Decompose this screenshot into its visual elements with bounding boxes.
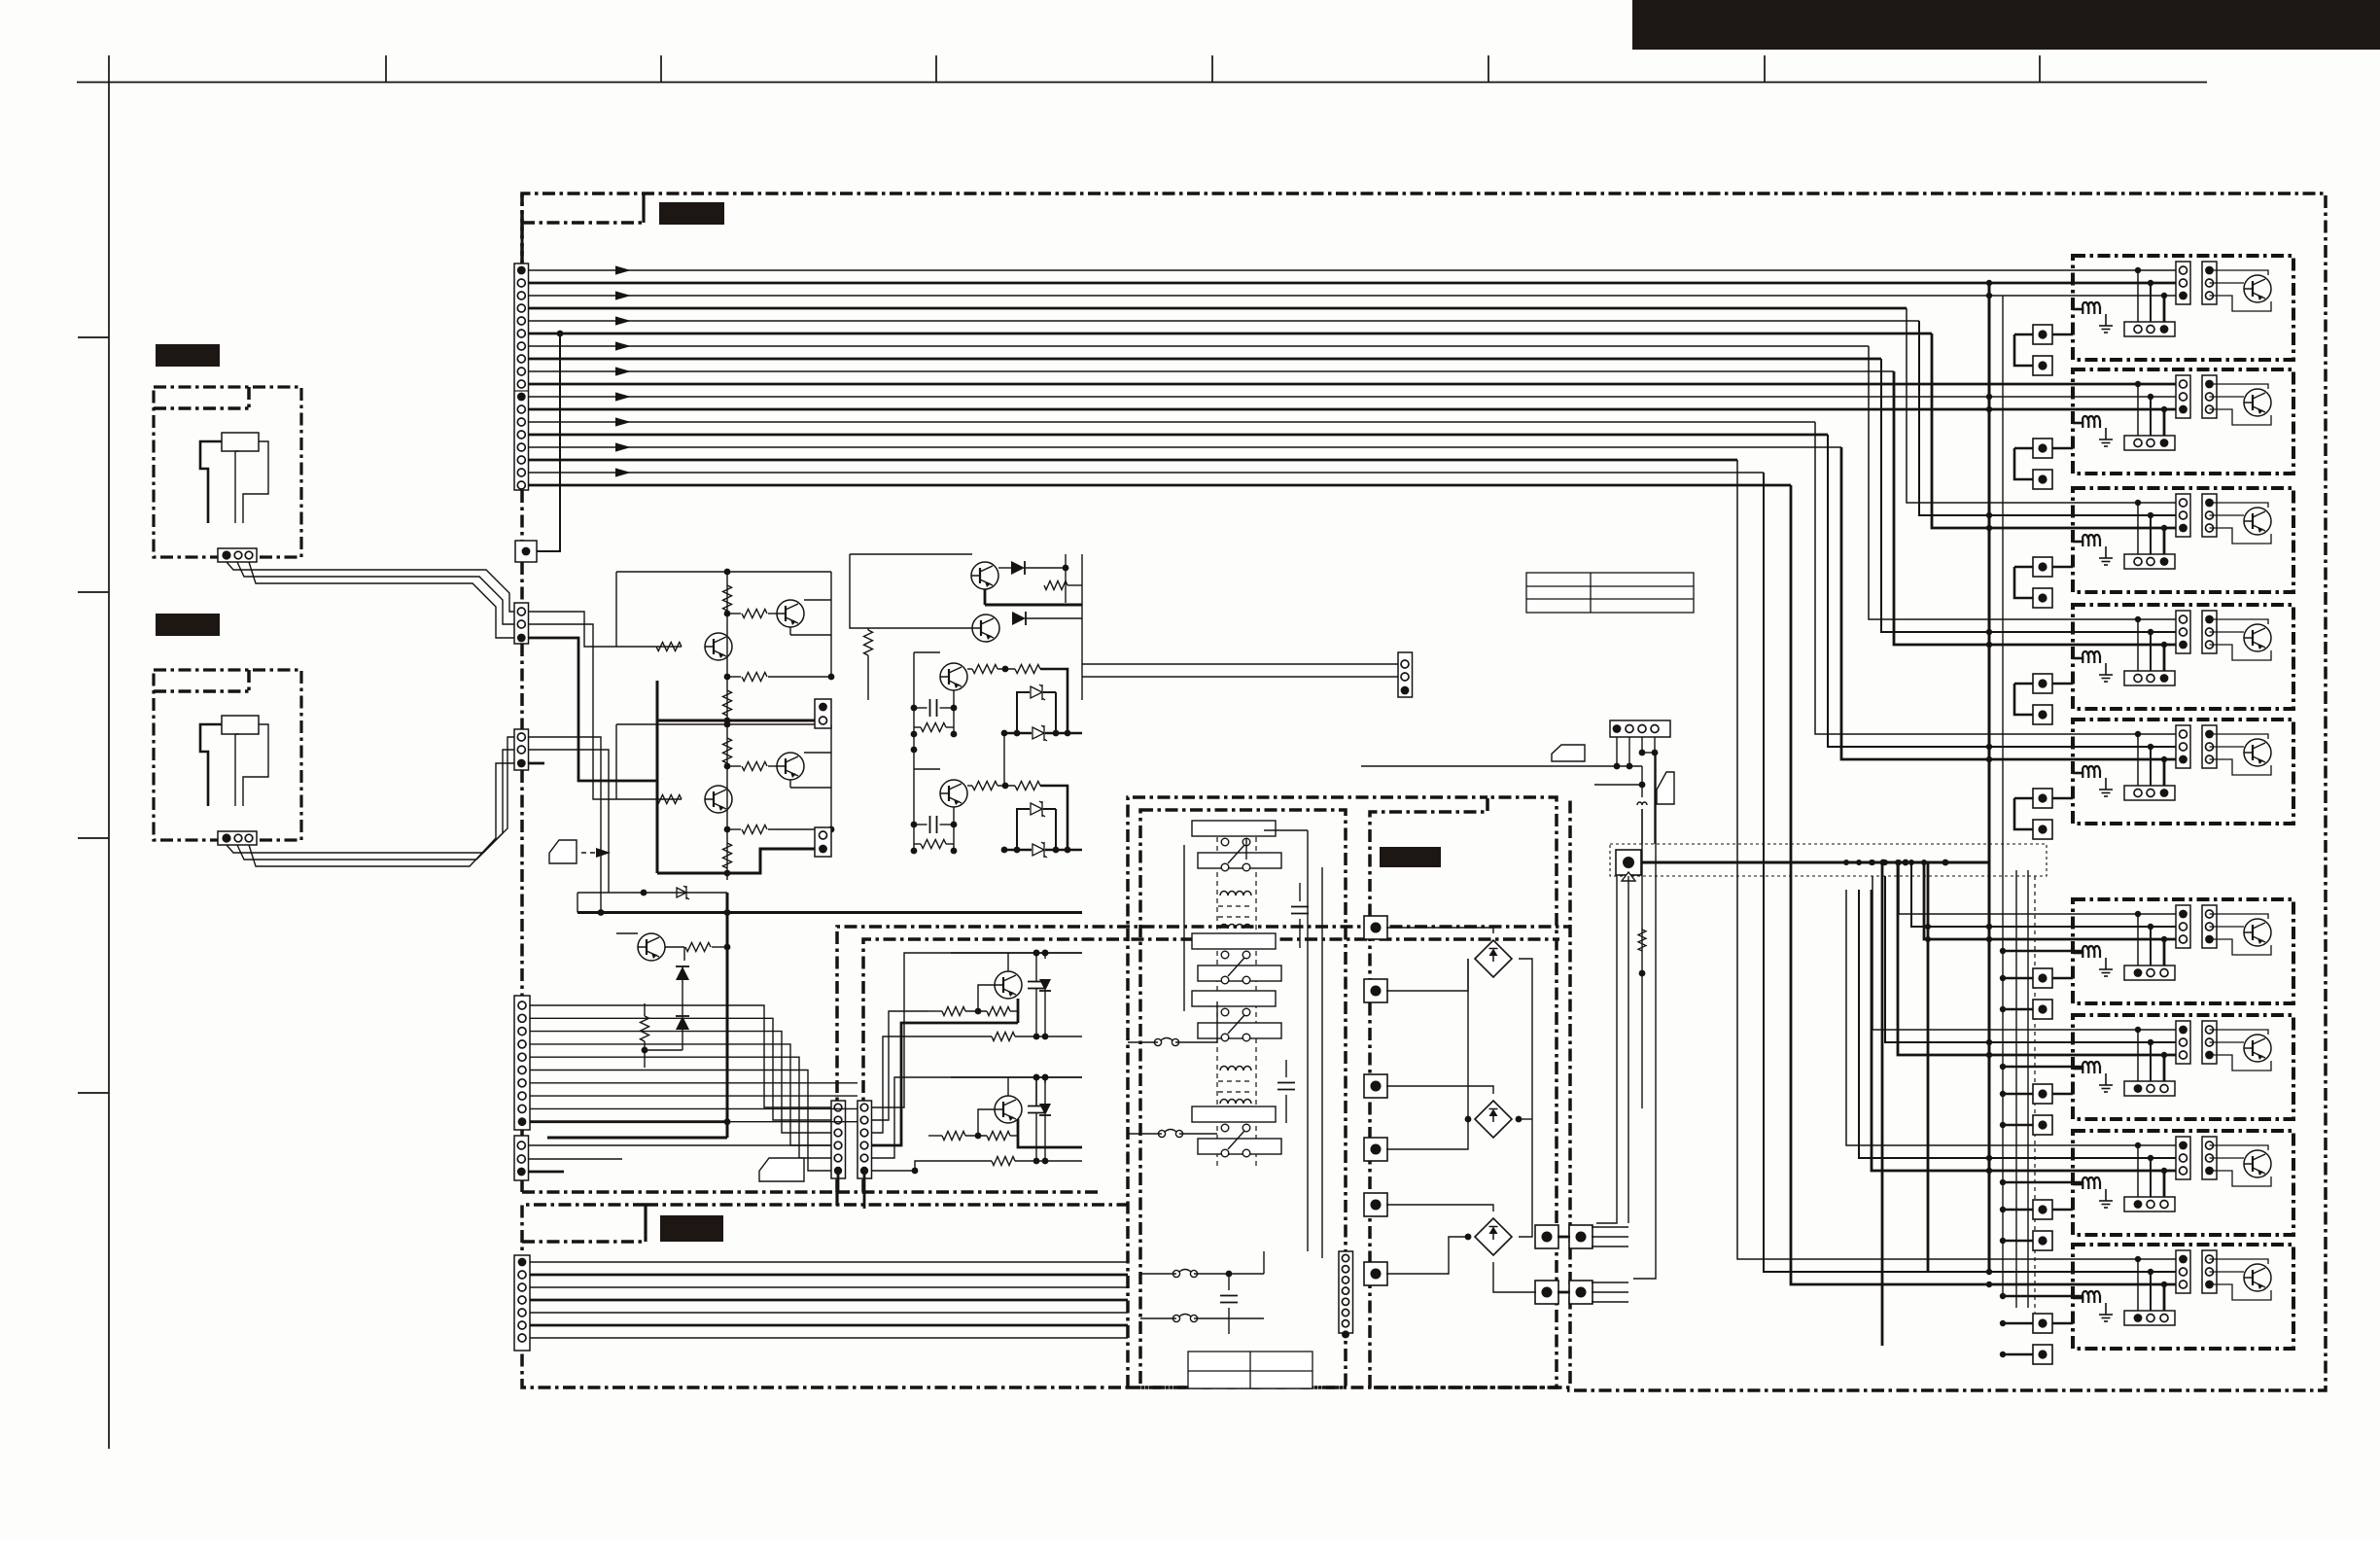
- block 1 input wires: [2135, 267, 2141, 273]
- resistor: [921, 840, 946, 849]
- wire to block8: [1846, 890, 2183, 1145]
- pad 2pin A: [815, 699, 831, 728]
- transistor: [940, 663, 967, 690]
- relay R1: [1192, 821, 1276, 836]
- block 2 power transistor: [2244, 389, 2271, 416]
- resistor: [723, 843, 732, 868]
- block 9 power transistor: [2244, 1264, 2271, 1291]
- feeder to TR1: [1596, 876, 1617, 1223]
- main board outline (dash-dot): [520, 223, 524, 263]
- wire bus5 to block3: [1919, 321, 2183, 515]
- wire to block6: [1899, 862, 2183, 914]
- resistor: [742, 673, 767, 682]
- fuse F1: [1154, 1038, 1178, 1046]
- wire bus6 to block3: [1932, 334, 2183, 528]
- transformer box: [1140, 810, 1346, 1387]
- connector 3pin lower: [514, 1136, 529, 1180]
- ruler tick: [1764, 55, 1766, 83]
- output block 1 outline: [2073, 256, 2293, 360]
- block 9 input wires: [2135, 1256, 2141, 1262]
- bus wire 13: [529, 421, 1816, 423]
- block 6 bottom connector: [2124, 966, 2175, 980]
- ruler tick: [935, 55, 937, 83]
- resistor: [742, 610, 767, 618]
- diode: [1012, 612, 1026, 625]
- connector 10pin: [514, 996, 530, 1130]
- transistor: [777, 753, 804, 780]
- main box bottom-left edge: [522, 1190, 837, 1194]
- harness wire: [530, 1082, 857, 1084]
- jack component: [222, 716, 259, 734]
- diode: [1011, 561, 1025, 575]
- bus wire 18: [529, 484, 1792, 487]
- block 3 connector left 3pin: [2176, 494, 2190, 537]
- main box left edge seg: [520, 1130, 524, 1138]
- wire down from protector: [1627, 876, 1629, 1223]
- rectifier box: [1370, 797, 1557, 1387]
- left ruler tick: [78, 1092, 109, 1094]
- wire bus15 to block5: [1841, 447, 2183, 759]
- block 6 emitter coil+ground: [2082, 946, 2100, 958]
- block 1 power transistor: [2244, 275, 2271, 302]
- resistor: [1015, 782, 1040, 790]
- output block 9 outline: [2073, 1245, 2293, 1349]
- top ruler line: [77, 82, 2207, 84]
- junction bus6: [557, 331, 564, 337]
- thick emitter wire B: [1018, 1119, 1082, 1147]
- bottom box outline: [522, 1205, 1128, 1387]
- resistor: [864, 630, 873, 655]
- bus wire 12: [529, 408, 2184, 411]
- transistor: [705, 786, 732, 813]
- ladder right: [953, 807, 955, 851]
- bus wire 6: [529, 333, 1933, 335]
- main box left edge seg: [520, 1179, 524, 1192]
- bottom resistor wire: [928, 1036, 992, 1037]
- bridge D1: [1475, 940, 1512, 977]
- bus wire 3: [529, 295, 2184, 297]
- bus wire 7: [529, 345, 1870, 347]
- block 6 power transistor: [2244, 919, 2271, 946]
- block 9 bottom connector: [2124, 1311, 2175, 1325]
- bottom bus wire 3: [530, 1286, 1128, 1288]
- harness wire: [530, 1057, 831, 1158]
- ladder right: [953, 690, 955, 734]
- ruler tick: [385, 55, 387, 83]
- connector 3pin mid-right: [1398, 652, 1413, 697]
- harness wire: [530, 1121, 857, 1123]
- output block 3 outline: [2073, 488, 2293, 592]
- ruler tick: [2039, 55, 2041, 83]
- bottom bus wire 5: [530, 1312, 1128, 1314]
- thick wire from 10pin: [530, 1120, 727, 1123]
- resistor: [972, 782, 997, 790]
- main box left edge seg: [520, 562, 524, 603]
- bottom resistor wire: [928, 1160, 992, 1162]
- resistor: [685, 943, 711, 952]
- thick wire 939: [577, 911, 1082, 914]
- left ruler tick: [78, 591, 109, 593]
- main box label notch lower line: [522, 221, 644, 225]
- transistor: [705, 633, 732, 660]
- wire to block6: [1911, 862, 2183, 927]
- left ruler tick: [78, 837, 109, 839]
- block 2 left pads: [2033, 439, 2052, 458]
- resistor: [1015, 665, 1040, 674]
- protector pad: [1616, 850, 1641, 875]
- block 2 connector right 3pin: [2202, 375, 2217, 418]
- block 7 connector left 3pin: [2176, 1021, 2190, 1064]
- bottom box notch lower line: [522, 1240, 646, 1244]
- left ruler line: [108, 55, 110, 1449]
- flag note 2: [1552, 745, 1585, 761]
- rail x1983 thick: [1927, 862, 1930, 1272]
- block 5 emitter coil+ground: [2082, 766, 2100, 778]
- power amp outline P2: [863, 939, 1559, 1192]
- label rectifier: [1380, 847, 1441, 867]
- block 6 connector right 3pin: [2202, 905, 2217, 948]
- thick wire: [1040, 786, 1067, 850]
- thick wire from CN pin3: [529, 638, 658, 781]
- block 4 bottom connector: [2124, 671, 2175, 685]
- ruler tick: [660, 55, 662, 83]
- diode: [1039, 1104, 1051, 1115]
- power amp outline P1: [837, 927, 1570, 1192]
- zener: [1032, 842, 1047, 858]
- block 8 emitter coil+ground: [2082, 1177, 2100, 1189]
- transformer T2: [1220, 1067, 1251, 1071]
- bus wire 17: [529, 472, 1765, 474]
- rail x2060: [2002, 296, 2004, 1296]
- capacitor: [1028, 1106, 1045, 1113]
- block 5 connector left 3pin: [2176, 725, 2190, 768]
- driver stage upper: [971, 562, 998, 589]
- resistor: [656, 643, 682, 651]
- resistor: [723, 690, 732, 716]
- zener: [1032, 725, 1047, 741]
- ladder left: [913, 652, 915, 734]
- wire bus17 to block9: [1764, 473, 2183, 1272]
- output block 4 outline: [2073, 605, 2293, 709]
- wire bus9 to block4: [1894, 371, 2183, 645]
- block 2 emitter coil+ground: [2082, 416, 2100, 428]
- outer power box: [1128, 797, 1487, 1387]
- wire bus4 to block3: [1907, 308, 2183, 503]
- speaker A cable: [227, 562, 515, 612]
- joint: [835, 1192, 838, 1206]
- block 9 emitter coil+ground: [2082, 1291, 2100, 1303]
- block 4 emitter coil+ground: [2082, 651, 2100, 663]
- zener pair: [1031, 685, 1045, 700]
- bottom bus wire 1: [530, 1261, 1128, 1263]
- wire row 918: [577, 892, 727, 894]
- harness wire: [530, 1071, 831, 1172]
- relay R2: [1192, 933, 1276, 949]
- TR pads: [1569, 1225, 1592, 1248]
- board label (top): [659, 202, 724, 225]
- rectifier output pads: [1535, 1225, 1558, 1248]
- block 3 left pads: [2033, 557, 2052, 577]
- verticals below 6pin: [837, 1170, 840, 1192]
- block 5 input wires: [2135, 731, 2141, 737]
- wires from 4pin: [1616, 737, 1618, 766]
- wire to block7: [1872, 876, 2183, 1030]
- thick bottom rail: [547, 1137, 727, 1140]
- capacitor: [1028, 982, 1045, 989]
- relay frame dashed columns: [1216, 828, 1218, 1167]
- block 7 power transistor: [2244, 1035, 2271, 1062]
- relay R3: [1192, 991, 1276, 1006]
- block 7 left pads: [2033, 1084, 2052, 1104]
- speaker box B: [154, 670, 301, 840]
- block 6 input wires: [2135, 911, 2141, 917]
- table bottom: [1188, 1352, 1312, 1388]
- bus wire 9: [529, 370, 1895, 372]
- output block 2 outline: [2073, 369, 2293, 474]
- wire to 3pin: [1082, 663, 1398, 665]
- capacitor: [930, 699, 937, 717]
- ruler tick: [1211, 55, 1213, 83]
- block 4 left pads: [2033, 674, 2052, 693]
- rectifier pads: [1364, 916, 1387, 939]
- block 8 input wires: [2135, 1142, 2141, 1148]
- wire to driver B top: [872, 1077, 1083, 1158]
- dashed rail x2093: [2034, 876, 2036, 1313]
- small table: [1526, 573, 1694, 613]
- bus wire 4: [529, 307, 1907, 310]
- bus wire 1: [529, 269, 2184, 271]
- speaker terminal connector: [218, 831, 257, 845]
- connector CN main 18pin: [514, 263, 529, 490]
- rectifier wiring: [1386, 928, 1493, 933]
- block 8 bottom connector: [2124, 1197, 2175, 1211]
- block 5 power transistor: [2244, 739, 2271, 766]
- pad 2pin B: [815, 827, 831, 857]
- wire bus18 to block9: [1791, 485, 2183, 1284]
- bottom bus wire 6: [530, 1324, 1128, 1327]
- block 4 power transistor: [2244, 624, 2271, 651]
- left ruler tick: [78, 336, 109, 338]
- bridge D3: [1475, 1218, 1512, 1255]
- block 8 power transistor: [2244, 1150, 2271, 1177]
- block 9 connector right 3pin: [2202, 1250, 2217, 1293]
- bottom bus wire 2: [530, 1274, 1128, 1277]
- connector 3pin mid: [514, 729, 529, 770]
- thick center rail lower: [726, 893, 729, 1138]
- block 2 connector left 3pin: [2176, 375, 2190, 418]
- wire bus14 to block5: [1828, 435, 2183, 747]
- wire to block8: [1859, 890, 2183, 1158]
- small 1pin box: [515, 541, 537, 562]
- label speaker B: [156, 614, 220, 636]
- block 8 connector left 3pin: [2176, 1137, 2190, 1179]
- block 1 emitter coil+ground: [2082, 302, 2100, 314]
- block 3 power transistor: [2244, 508, 2271, 535]
- thick emitter wire A: [872, 1023, 1019, 1145]
- bus wire 11: [529, 396, 2184, 398]
- block 5 bottom connector: [2124, 786, 2175, 800]
- wire to block6: [1924, 862, 2183, 939]
- caps in transformer box: [1291, 907, 1309, 914]
- feeder coil: [1641, 809, 1643, 1108]
- connector 6pin pair: [831, 1101, 846, 1178]
- driver Q lower A: [995, 971, 1022, 999]
- block 4 connector left 3pin: [2176, 611, 2190, 653]
- wire to block7: [1885, 876, 2183, 1042]
- speaker terminal connector: [218, 548, 257, 562]
- title banner: [1632, 0, 2380, 50]
- main box notch vertical: [642, 193, 645, 223]
- bus wire 15: [529, 446, 1842, 448]
- block 5 left pads: [2033, 789, 2052, 808]
- resistor: [641, 1016, 649, 1041]
- main box left edge seg: [520, 770, 524, 996]
- rail x2086: [2027, 870, 2029, 1308]
- harness wire: [530, 1032, 831, 1133]
- main box left edge seg: [520, 490, 524, 541]
- input wires: [529, 612, 617, 647]
- transistor Q lower: [638, 933, 665, 961]
- block 4 input wires: [2135, 616, 2141, 622]
- transformer T1: [1220, 892, 1251, 896]
- transformer box wiring: [1264, 829, 1308, 831]
- connector 3pin upper: [514, 603, 529, 644]
- base resistors: [928, 1135, 942, 1137]
- transistor: [777, 600, 804, 627]
- main box left edge seg: [520, 644, 524, 729]
- flag note: [759, 1158, 804, 1181]
- resistor on feeder: [1638, 930, 1646, 951]
- thick wire 622: [985, 604, 1082, 607]
- wire to block7: [1898, 862, 2183, 1055]
- wire to 3pin: [1082, 676, 1398, 678]
- fuse F3: [1172, 1270, 1197, 1278]
- resistor: [742, 825, 767, 834]
- label speaker A: [156, 344, 220, 367]
- zener: [677, 886, 689, 899]
- bus wire 8: [529, 358, 1882, 361]
- capacitor: [930, 816, 937, 833]
- bus wire 10: [529, 383, 2184, 386]
- resistor: [656, 795, 682, 804]
- thick protector wire: [1641, 861, 1989, 864]
- bottom bus wire 7: [530, 1337, 1128, 1339]
- driver Q lower B: [995, 1096, 1022, 1123]
- output block 7 outline: [2073, 1015, 2293, 1119]
- output block 5 outline: [2073, 720, 2293, 824]
- bus wire 16: [529, 459, 1738, 462]
- resistor: [723, 738, 732, 763]
- block 8 left pads: [2033, 1200, 2052, 1219]
- resistor: [723, 585, 732, 611]
- flag arrow: [549, 840, 577, 863]
- block 1 connector left 3pin: [2176, 262, 2190, 304]
- flag 3: [1657, 772, 1674, 804]
- harness wire: [530, 1095, 857, 1097]
- harness wire: [530, 1018, 831, 1120]
- block 3 connector right 3pin: [2202, 494, 2217, 537]
- bridge D2: [1475, 1101, 1512, 1138]
- wires 3pin lower: [529, 1144, 832, 1146]
- wire to driver A bottom: [872, 1036, 929, 1133]
- output block 8 outline: [2073, 1131, 2293, 1235]
- bus wire 14: [529, 434, 1829, 437]
- wire bus16 to block9: [1737, 460, 2183, 1259]
- resistor: [921, 723, 946, 732]
- long wire into 4pin area: [1361, 765, 1617, 767]
- main box top/right edge: [522, 193, 2326, 1390]
- speaker box A: [154, 387, 301, 557]
- relay R4: [1192, 1106, 1276, 1122]
- thick link wires: [657, 720, 815, 873]
- rail x2074: [2015, 870, 2017, 1308]
- board label (bottom): [660, 1215, 723, 1242]
- wire to driver A top: [872, 953, 1083, 1107]
- bus wire 2: [529, 282, 2184, 285]
- bottom box notch vertical: [644, 1205, 647, 1242]
- block 6 connector left 3pin: [2176, 905, 2190, 948]
- jack component: [222, 433, 259, 451]
- block 7 input wires: [2135, 1027, 2141, 1033]
- block 6 left pads: [2033, 968, 2052, 988]
- block 2 input wires: [2135, 381, 2141, 387]
- ruler tick: [1487, 55, 1489, 83]
- resistor: [742, 762, 767, 771]
- wire bus6 to 1pin box: [537, 334, 560, 551]
- resistor: [972, 665, 997, 674]
- block 3 input wires: [2135, 500, 2141, 506]
- diode: [1039, 979, 1051, 991]
- wire bus7 to block4: [1869, 346, 2183, 619]
- base resistors: [928, 1010, 942, 1012]
- wire to driver A base: [872, 1011, 929, 1120]
- TR lead lines: [1592, 1226, 1628, 1228]
- wire bus13 to block5: [1815, 422, 2183, 734]
- block 1 connector right 3pin: [2202, 262, 2217, 304]
- connector 4pin: [1610, 720, 1670, 737]
- harness wire: [530, 1107, 857, 1109]
- block 9 left pads: [2033, 1314, 2052, 1333]
- bus wire 5: [529, 320, 1920, 322]
- block 7 bottom connector: [2124, 1081, 2175, 1096]
- output block 6 outline: [2073, 899, 2293, 1003]
- block 4 connector right 3pin: [2202, 611, 2217, 653]
- block 5 connector right 3pin: [2202, 725, 2217, 768]
- fuse F4: [1172, 1315, 1197, 1322]
- fuse F2: [1158, 1130, 1182, 1138]
- block 2 bottom connector: [2124, 436, 2175, 450]
- feeder to TR2: [1633, 753, 1656, 1279]
- ladder left: [913, 769, 915, 851]
- bottom bus wire 4: [530, 1299, 1128, 1302]
- block 1 bottom connector: [2124, 322, 2175, 336]
- thick wire: [1040, 669, 1067, 733]
- coil small: [1637, 802, 1647, 805]
- block 7 emitter coil+ground: [2082, 1062, 2100, 1073]
- block 3 emitter coil+ground: [2082, 535, 2100, 546]
- bottom box top edge right part: [646, 1203, 1128, 1207]
- resistor: [1044, 581, 1067, 590]
- cap C3: [1220, 1296, 1238, 1303]
- block 7 connector right 3pin: [2202, 1021, 2217, 1064]
- junction: [1639, 970, 1646, 977]
- harness wire: [530, 1044, 831, 1145]
- block 9 connector left 3pin: [2176, 1250, 2190, 1293]
- block 1 left pads: [2033, 325, 2052, 344]
- block 8 connector right 3pin: [2202, 1137, 2217, 1179]
- amp stage rail: [616, 571, 831, 573]
- wire to driver B bottom: [915, 1161, 928, 1171]
